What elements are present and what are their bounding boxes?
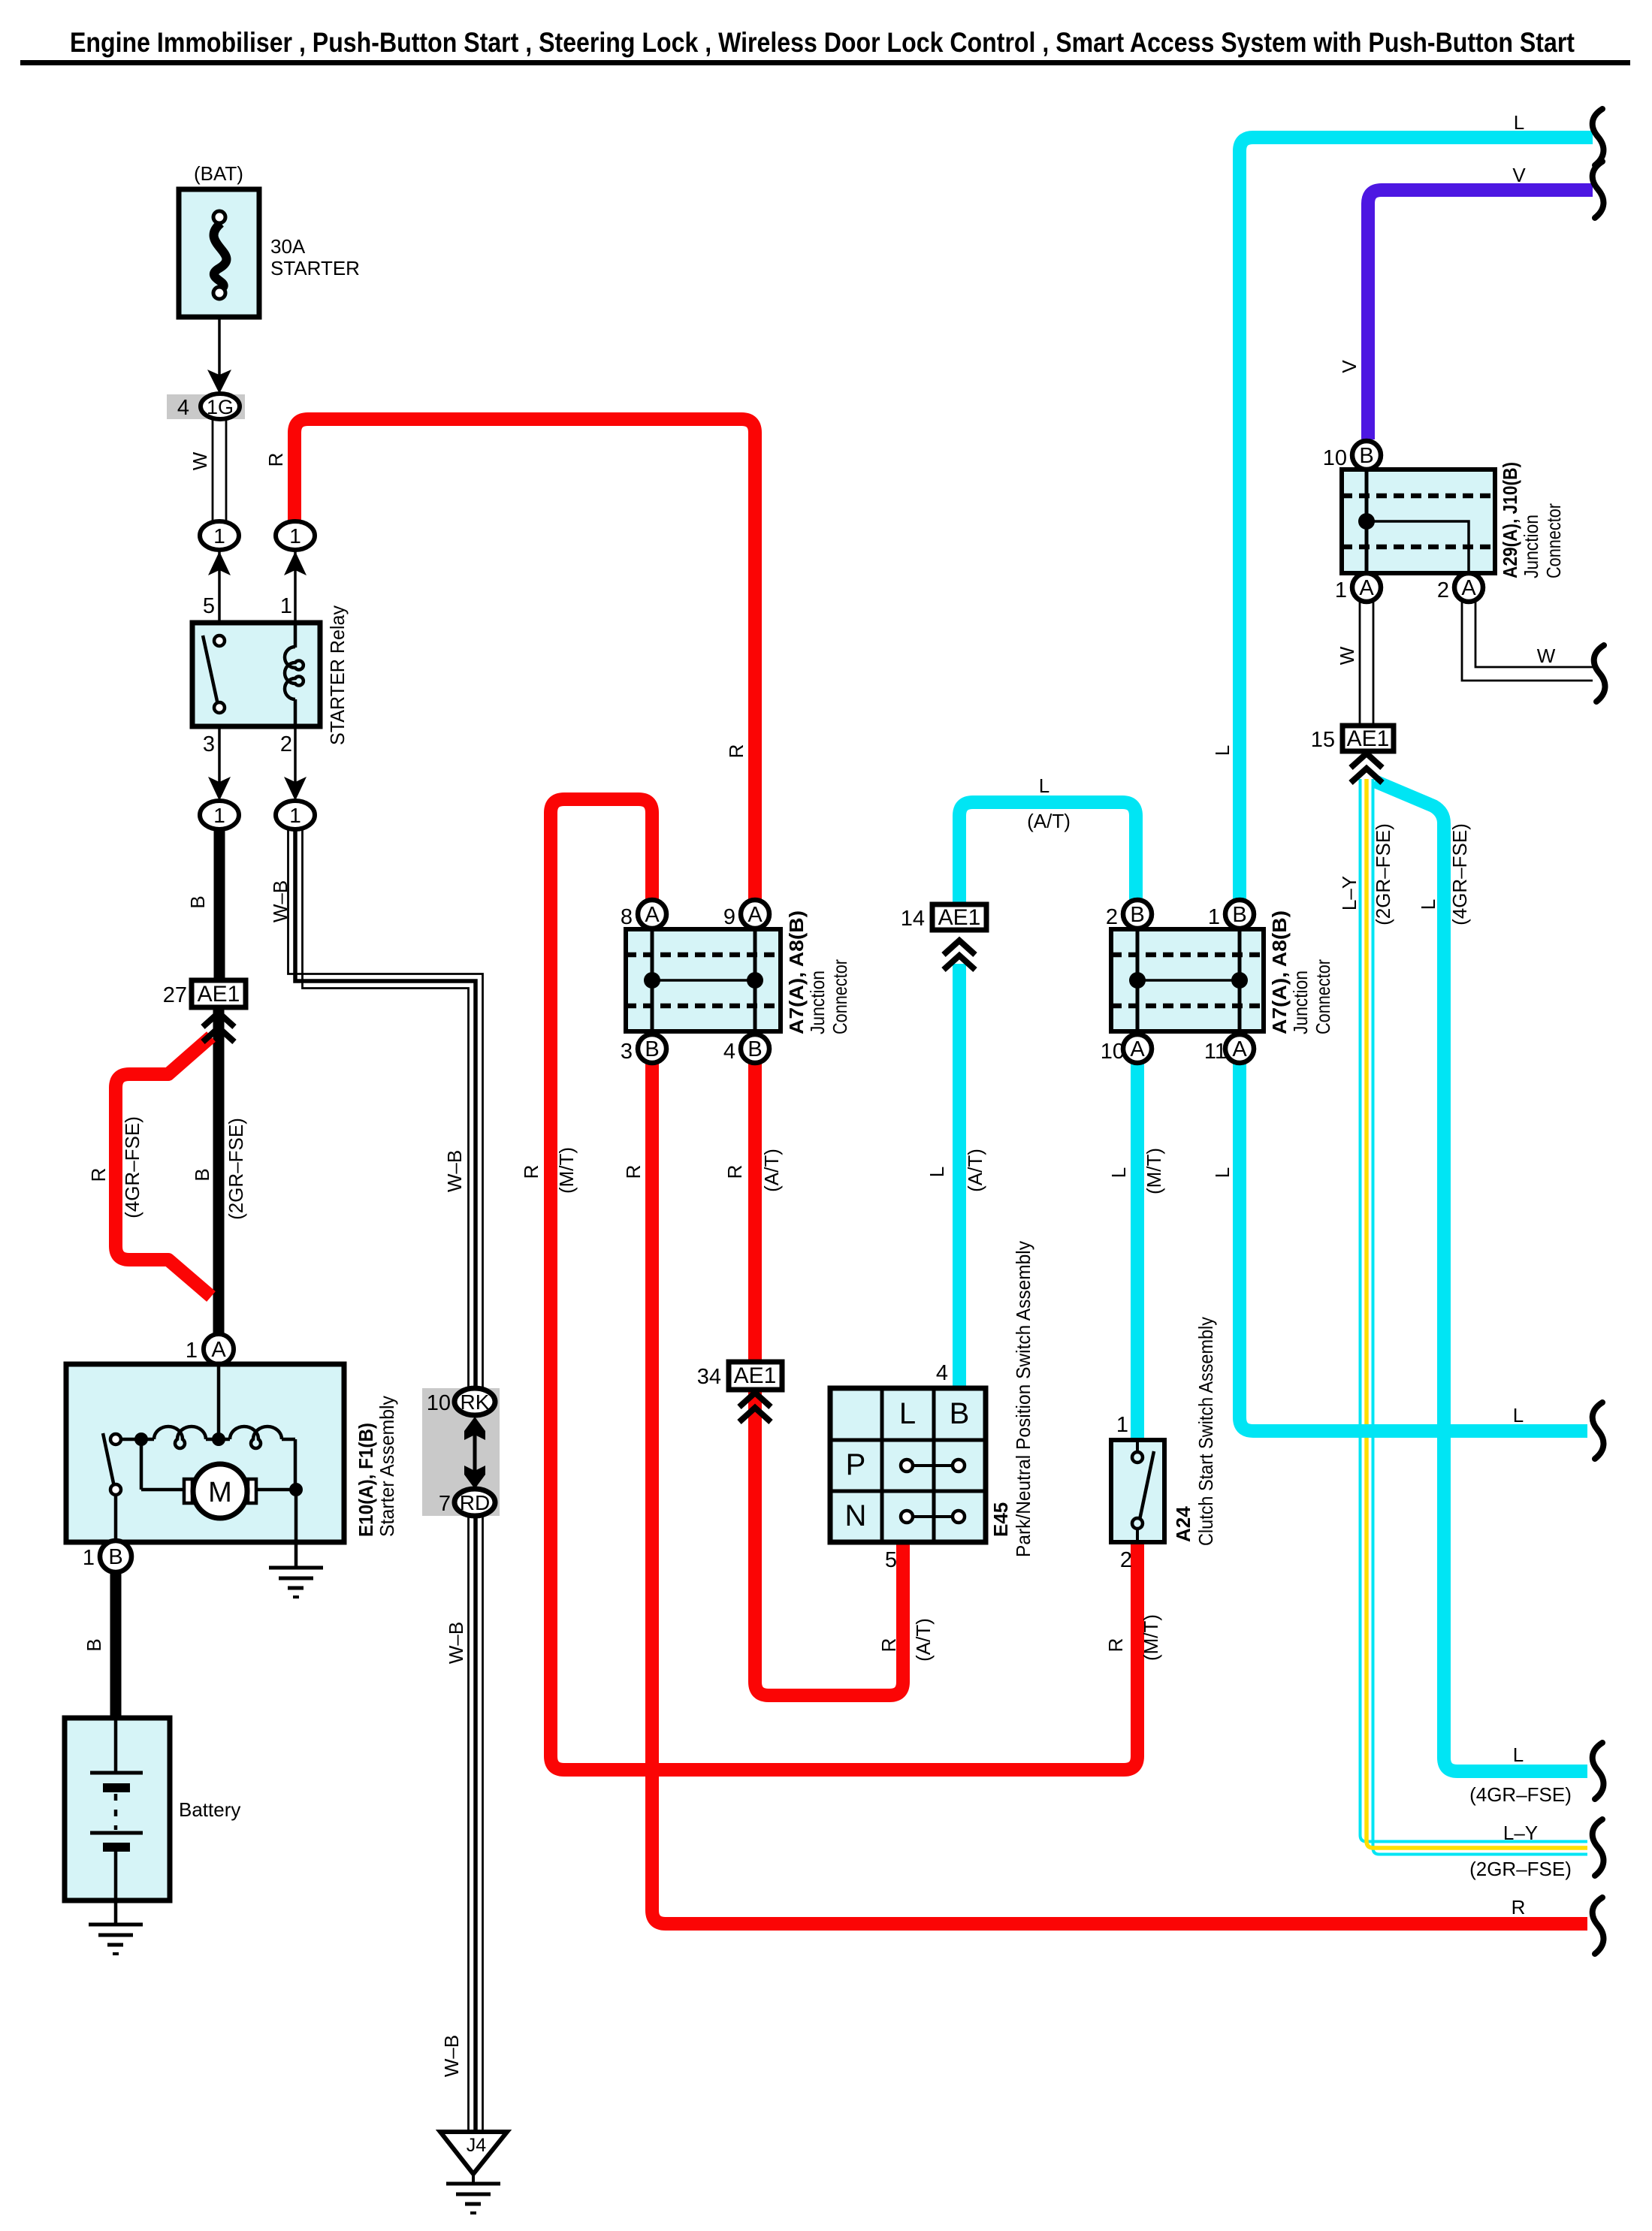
svg-text:STARTER: STARTER (270, 257, 360, 279)
svg-text:W–B: W–B (440, 2035, 463, 2077)
svg-text:(M/T): (M/T) (1143, 1148, 1165, 1194)
svg-text:R: R (723, 1165, 746, 1179)
svg-text:Clutch Start Switch Assembly: Clutch Start Switch Assembly (1194, 1317, 1217, 1546)
svg-text:1: 1 (280, 594, 292, 618)
pin 8 A (638, 900, 666, 928)
svg-text:(M/T): (M/T) (555, 1147, 578, 1194)
svg-text:R: R (725, 744, 747, 759)
svg-text:L: L (1513, 1404, 1524, 1426)
svg-text:(4GR–FSE): (4GR–FSE) (1448, 823, 1471, 925)
junction connector A7(A) A8(B) left box (626, 929, 781, 1031)
svg-text:4: 4 (936, 1361, 948, 1385)
pin 3 B (638, 1034, 666, 1063)
wire fuse to 1G (218, 317, 221, 376)
pin 2 A (1454, 573, 1483, 602)
break symbol W right (1594, 645, 1605, 702)
svg-text:1: 1 (289, 804, 301, 827)
pin 9 A (741, 900, 769, 928)
wire L M/T pin 10A to A24 pin 1 (1131, 1063, 1144, 1440)
junction connector A7(A) A8(B) right box (1111, 929, 1264, 1031)
svg-text:(2GR–FSE): (2GR–FSE) (225, 1118, 247, 1220)
ground J4 (440, 2132, 507, 2174)
wire R 4GR-FSE branch (116, 1037, 211, 1297)
starter pin 1 B (100, 1541, 131, 1572)
svg-text:L: L (926, 1167, 948, 1177)
svg-text:Starter Assembly: Starter Assembly (376, 1396, 398, 1537)
wire relay pin 3 down (218, 726, 221, 786)
svg-text:RD: RD (460, 1491, 490, 1514)
svg-text:R: R (520, 1165, 542, 1179)
wire L 4GR-FSE (1375, 781, 1587, 1771)
svg-text:1G: 1G (207, 396, 234, 418)
chevron below 15 AE1 (1351, 753, 1382, 783)
starter internal wiring (103, 1364, 296, 1566)
wire L A/T U to pin 2B (959, 802, 1136, 906)
svg-text:L: L (1211, 745, 1234, 756)
svg-text:R: R (877, 1638, 900, 1653)
svg-text:A: A (1232, 1037, 1247, 1061)
svg-text:AE1: AE1 (938, 905, 981, 930)
svg-text:Connector: Connector (829, 959, 851, 1034)
svg-text:9: 9 (723, 905, 735, 929)
wire relay pin 2 down (294, 726, 297, 786)
wire R red top to pin 9A (294, 419, 755, 901)
chevron below 14 AE1 (944, 940, 975, 970)
E45 contacts N row (907, 1515, 959, 1518)
break symbol L middle right (1593, 1402, 1604, 1459)
svg-text:E10(A), F1(B): E10(A), F1(B) (355, 1423, 377, 1537)
svg-text:B: B (186, 895, 209, 908)
wire R pin 3B to bottom break (652, 1063, 1587, 1924)
svg-text:8: 8 (621, 905, 633, 929)
svg-text:E45: E45 (989, 1502, 1012, 1537)
svg-text:5: 5 (885, 1548, 897, 1572)
svg-text:A: A (747, 903, 763, 927)
switch A24 Clutch Start Switch Assembly (1111, 1440, 1164, 1542)
svg-text:A7(A), A8(B): A7(A), A8(B) (1268, 910, 1291, 1034)
svg-text:B: B (950, 1397, 970, 1430)
svg-text:J4: J4 (467, 2135, 487, 2156)
connector 34 AE1 (729, 1362, 782, 1390)
svg-text:(A/T): (A/T) (760, 1149, 783, 1192)
svg-text:B: B (83, 1638, 105, 1651)
wire oval to relay pin 1 (294, 550, 297, 623)
title underline (20, 60, 1630, 65)
connector oval 1 right above relay (276, 521, 315, 550)
svg-text:B: B (747, 1037, 762, 1061)
svg-text:10: 10 (1323, 446, 1347, 470)
svg-text:B: B (1232, 903, 1246, 927)
svg-text:(A/T): (A/T) (912, 1618, 935, 1662)
svg-text:7: 7 (439, 1492, 451, 1516)
svg-text:R: R (1512, 1896, 1526, 1919)
connector oval 1 left below relay (200, 801, 239, 829)
svg-text:V: V (1512, 164, 1526, 186)
svg-text:10: 10 (427, 1391, 451, 1415)
svg-text:2: 2 (280, 732, 292, 756)
switch E45 Park/Neutral Position Switch Assembly (830, 1388, 986, 1542)
battery symbol (114, 1718, 118, 1771)
svg-text:L: L (1417, 899, 1439, 910)
svg-text:B: B (645, 1037, 659, 1061)
svg-text:RK: RK (461, 1390, 490, 1414)
svg-text:Connector: Connector (1312, 959, 1334, 1034)
motor M (184, 1479, 192, 1503)
connector 14 AE1 (932, 904, 986, 930)
svg-text:A29(A), J10(B): A29(A), J10(B) (1499, 462, 1521, 578)
svg-text:1: 1 (1208, 905, 1220, 929)
svg-text:A24: A24 (1172, 1506, 1194, 1542)
svg-text:AE1: AE1 (1347, 726, 1390, 751)
svg-text:(A/T): (A/T) (964, 1149, 986, 1192)
connector 15 AE1 (1342, 726, 1394, 751)
svg-text:(4GR–FSE): (4GR–FSE) (1469, 1783, 1572, 1806)
connector 27 AE1 (192, 980, 246, 1007)
chevron below 34 AE1 (739, 1393, 771, 1422)
break symbol V (1593, 162, 1604, 218)
wire W-B to J4 (288, 826, 483, 2132)
svg-text:(M/T): (M/T) (1140, 1614, 1162, 1661)
wire L A/T 14 AE1 to E45 pin 4 (953, 964, 966, 1388)
ground under starter (269, 1568, 323, 1597)
pin 1 A (1352, 573, 1381, 602)
pin 2 B (1123, 900, 1152, 928)
svg-text:1: 1 (83, 1546, 95, 1570)
arrows between RK and RD (473, 1431, 477, 1476)
svg-text:R: R (1104, 1638, 1127, 1653)
wire R M/T pin 8A to A24 pin 2 (551, 799, 1137, 1770)
svg-text:Junction: Junction (1520, 515, 1542, 578)
svg-text:M: M (208, 1477, 232, 1508)
wire B relay to 27 AE1 (214, 826, 225, 982)
svg-text:AE1: AE1 (198, 982, 240, 1007)
svg-text:R: R (622, 1165, 645, 1179)
connector oval 1 right below relay (276, 801, 315, 829)
svg-text:B: B (191, 1168, 213, 1181)
svg-text:W–B: W–B (269, 880, 291, 922)
svg-text:A: A (1130, 1037, 1145, 1061)
wire W 1G to oval (213, 419, 226, 521)
wire L-Y 2GR-FSE (1361, 779, 1588, 1855)
wire W A29 pin 1A to 15 AE1 (1360, 601, 1373, 726)
svg-text:A: A (1461, 576, 1476, 600)
svg-text:4: 4 (177, 396, 189, 420)
connector 7 RD (455, 1489, 495, 1516)
svg-text:A7(A), A8(B): A7(A), A8(B) (785, 910, 808, 1034)
svg-text:W: W (189, 451, 211, 470)
svg-text:W: W (1336, 646, 1358, 665)
svg-text:(A/T): (A/T) (1027, 810, 1071, 832)
connector oval 1 left above relay (200, 521, 239, 550)
svg-text:L: L (899, 1397, 916, 1430)
svg-text:L: L (1107, 1167, 1130, 1178)
svg-text:10: 10 (1101, 1040, 1125, 1064)
svg-text:AE1: AE1 (734, 1363, 777, 1388)
wire oval to relay pin 5 (218, 550, 221, 623)
svg-text:L: L (1514, 111, 1524, 134)
svg-text:Battery: Battery (179, 1798, 240, 1821)
svg-text:3: 3 (203, 732, 215, 756)
svg-text:L–Y: L–Y (1503, 1822, 1538, 1844)
svg-text:3: 3 (621, 1040, 633, 1064)
E45 contacts P row (907, 1464, 959, 1467)
svg-text:Junction: Junction (1289, 971, 1312, 1034)
wire L cyan top (1240, 137, 1593, 901)
wire V violet (1368, 190, 1593, 439)
svg-text:B: B (108, 1545, 122, 1569)
svg-text:1: 1 (213, 804, 225, 827)
break symbol L top (1593, 109, 1604, 165)
pin 10 B (1352, 441, 1381, 469)
pin 1 B (1225, 900, 1254, 928)
wire L pin 11A to right break (1240, 1063, 1587, 1431)
grey connector box RK RD (422, 1388, 500, 1516)
svg-text:(4GR–FSE): (4GR–FSE) (121, 1116, 143, 1218)
svg-text:STARTER Relay: STARTER Relay (326, 605, 349, 745)
grey box 1G (167, 394, 245, 419)
svg-text:34: 34 (697, 1365, 721, 1389)
svg-text:11: 11 (1204, 1040, 1227, 1064)
svg-text:N: N (845, 1499, 867, 1532)
battery box (65, 1718, 170, 1900)
connector 4 1G (201, 394, 240, 419)
svg-text:P: P (846, 1448, 866, 1481)
svg-text:A: A (211, 1338, 226, 1362)
svg-text:B: B (1359, 444, 1373, 468)
wire R A/T pin 4B to 34 AE1 (748, 1063, 762, 1362)
pin 11 A (1225, 1034, 1254, 1063)
svg-text:A: A (1359, 576, 1374, 600)
starter assembly pin 1 A (204, 1334, 234, 1364)
svg-text:1: 1 (213, 524, 225, 548)
wire W A29 pin 2A to break (1462, 601, 1593, 681)
svg-text:Engine Immobiliser , Push-Butt: Engine Immobiliser , Push-Button Start ,… (70, 27, 1575, 58)
svg-text:2: 2 (1437, 578, 1449, 602)
svg-text:1: 1 (1116, 1413, 1128, 1437)
svg-text:1: 1 (186, 1339, 198, 1363)
connector 10 RK (455, 1388, 495, 1415)
svg-text:L: L (1211, 1167, 1234, 1178)
pin 4 B (741, 1034, 769, 1063)
junction connector A29(A) J10(B) box (1342, 469, 1495, 573)
svg-text:W–B: W–B (443, 1150, 466, 1192)
svg-text:L–Y: L–Y (1338, 876, 1361, 910)
svg-text:W–B: W–B (445, 1622, 467, 1664)
starter assembly E10(A) F1(B) box (66, 1364, 344, 1542)
break symbol L-Y (1593, 1819, 1604, 1876)
svg-text:Connector: Connector (1542, 503, 1565, 578)
svg-text:4: 4 (723, 1040, 735, 1064)
break symbol R bottom (1593, 1897, 1604, 1954)
svg-text:V: V (1338, 360, 1361, 373)
ground under battery (89, 1925, 143, 1954)
svg-text:1: 1 (289, 524, 301, 548)
svg-text:1: 1 (1335, 578, 1347, 602)
wire R A/T 34 AE1 to E45 pin 5 (755, 1391, 903, 1695)
svg-text:L: L (1039, 774, 1049, 797)
svg-text:Park/Neutral Position Switch A: Park/Neutral Position Switch Assembly (1012, 1241, 1034, 1557)
svg-text:2: 2 (1120, 1548, 1132, 1572)
svg-text:15: 15 (1311, 728, 1335, 752)
svg-text:27: 27 (163, 983, 187, 1007)
pin 10 A (1123, 1034, 1152, 1063)
wire B starter pin B to battery (110, 1570, 122, 1720)
break symbol L 4GR (1593, 1743, 1604, 1799)
svg-text:30A: 30A (270, 235, 306, 258)
svg-text:(2GR–FSE): (2GR–FSE) (1469, 1858, 1572, 1880)
svg-text:R: R (264, 453, 287, 467)
svg-text:Junction: Junction (806, 971, 829, 1034)
svg-text:5: 5 (203, 594, 215, 618)
svg-text:R: R (87, 1168, 110, 1182)
svg-text:(BAT): (BAT) (194, 162, 243, 185)
svg-text:A: A (645, 903, 660, 927)
svg-text:(2GR–FSE): (2GR–FSE) (1372, 823, 1394, 925)
svg-text:B: B (1130, 903, 1144, 927)
svg-text:W: W (1537, 645, 1556, 667)
chevron below 27 AE1 (203, 1013, 234, 1042)
wire B 2GR-FSE to starter pin A (213, 1010, 225, 1336)
svg-text:L: L (1513, 1743, 1524, 1766)
svg-text:14: 14 (901, 907, 925, 931)
svg-text:2: 2 (1106, 905, 1118, 929)
